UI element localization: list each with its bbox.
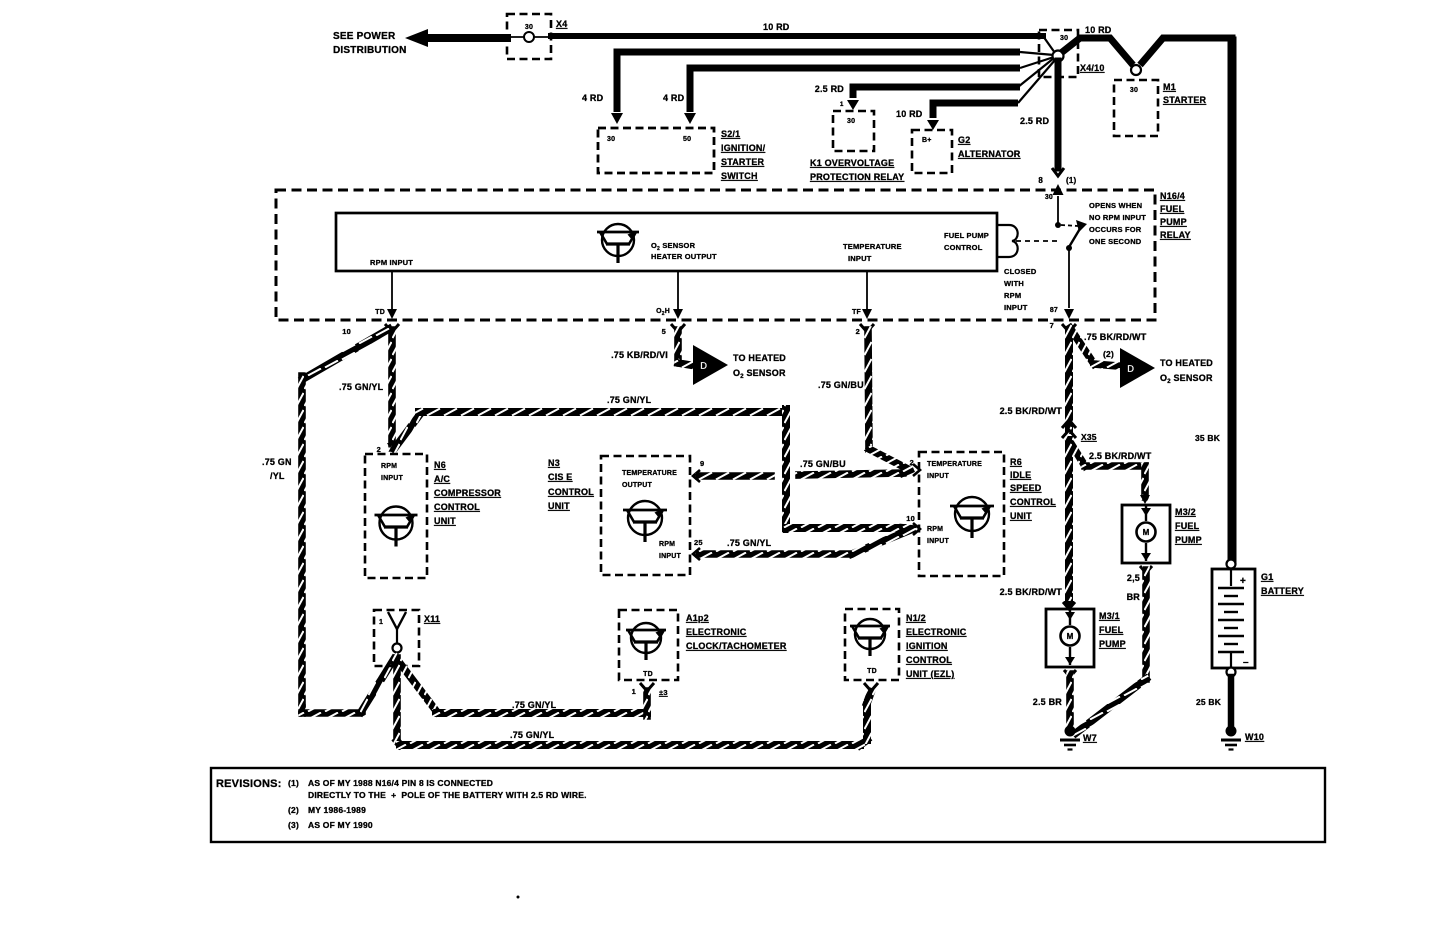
svg-text:.75 KB/RD/VI: .75 KB/RD/VI (611, 350, 668, 360)
svg-text:TEMPERATURE: TEMPERATURE (843, 242, 902, 251)
wire 2.5 RD junction to relay pin 8 (1055, 61, 1062, 168)
connector D to heated O2 sensor (left) (693, 345, 728, 385)
svg-text:D: D (700, 361, 707, 372)
svg-text:2.5 BK/RD/WT: 2.5 BK/RD/WT (1000, 587, 1063, 597)
svg-text:FUEL: FUEL (1175, 521, 1200, 531)
svg-text:±3: ±3 (659, 688, 668, 697)
wire .75 GN/BU N3 pin 9 to R6 pin 2 (699, 472, 771, 480)
svg-text:RPM INPUT: RPM INPUT (370, 258, 413, 267)
svg-text:2.5 BR: 2.5 BR (1033, 697, 1063, 707)
connector X4 (507, 14, 551, 59)
svg-text:UNIT: UNIT (1010, 511, 1032, 521)
svg-text:STARTER: STARTER (721, 157, 765, 167)
wire to power distribution with arrow (405, 29, 428, 47)
svg-text:TF: TF (852, 309, 861, 316)
wire 2.5 RD to K1 pin 30 (853, 87, 1020, 98)
svg-text:AS OF MY 1988 N16/4 PIN 8 IS C: AS OF MY 1988 N16/4 PIN 8 IS CONNECTED (308, 778, 493, 788)
ground W10 (1226, 726, 1237, 737)
wire .75 GN/YL X11 down to N1/2 run (393, 658, 401, 741)
svg-text:HEATER OUTPUT: HEATER OUTPUT (651, 252, 717, 261)
svg-text:RPM: RPM (659, 541, 675, 548)
svg-text:M3/1: M3/1 (1099, 611, 1120, 621)
svg-text:.75 GN: .75 GN (262, 457, 292, 467)
svg-text:IGNITION: IGNITION (906, 641, 948, 651)
svg-text:CONTROL: CONTROL (906, 655, 952, 665)
svg-text:COMPRESSOR: COMPRESSOR (434, 488, 501, 498)
svg-text:CONTROL: CONTROL (1010, 497, 1056, 507)
connector D to heated O2 sensor (right) (1120, 348, 1155, 388)
svg-text:30: 30 (847, 118, 855, 125)
svg-text:PUMP: PUMP (1099, 639, 1126, 649)
svg-text:W10: W10 (1245, 732, 1264, 742)
fuel pump M3/2 (1122, 505, 1170, 563)
switch S2/1 ignition/starter switch (598, 128, 714, 173)
svg-text:N1/2: N1/2 (906, 613, 926, 623)
relay internal module box (336, 213, 997, 271)
scan speck (517, 896, 520, 899)
svg-text:TEMPERATURE: TEMPERATURE (622, 470, 677, 477)
svg-text:25 BK: 25 BK (1196, 697, 1222, 707)
relay pin TF (866, 271, 868, 310)
svg-text:2: 2 (856, 327, 860, 336)
svg-text:RPM: RPM (381, 463, 397, 470)
wire .75 GN/YL TD pin down to N6 pin 2 (385, 324, 399, 332)
svg-text:FUEL: FUEL (1160, 204, 1185, 214)
svg-text:5: 5 (662, 327, 666, 336)
svg-text:CONTROL: CONTROL (944, 243, 983, 252)
clock/tachometer A1p2 (619, 610, 678, 680)
svg-text:2: 2 (377, 445, 381, 454)
svg-text:SEE POWER: SEE POWER (333, 31, 396, 42)
svg-text:CONTROL: CONTROL (548, 487, 594, 497)
wire into M3/1 (1063, 602, 1075, 609)
revisions note box (211, 768, 1325, 842)
wire .75 GN/YL N6 pin2 branch up to distribution run (394, 413, 421, 449)
svg-text:PROTECTION RELAY: PROTECTION RELAY (810, 172, 904, 182)
svg-text:OPENS WHEN: OPENS WHEN (1089, 201, 1142, 210)
svg-text:INPUT: INPUT (848, 254, 872, 263)
wire .75 GN/BU TF pin to R6 pin 2 (860, 324, 874, 332)
svg-text:CIS E: CIS E (548, 472, 573, 482)
svg-text:FUEL PUMP: FUEL PUMP (944, 231, 989, 240)
svg-text:DISTRIBUTION: DISTRIBUTION (333, 45, 407, 56)
svg-text:FUEL: FUEL (1099, 625, 1124, 635)
svg-text:2.5 BK/RD/WT: 2.5 BK/RD/WT (1000, 406, 1063, 416)
svg-text:.75 GN/YL: .75 GN/YL (512, 700, 557, 710)
svg-text:M1: M1 (1163, 82, 1176, 92)
svg-text:BR: BR (1127, 592, 1141, 602)
svg-text:REVISIONS:: REVISIONS: (216, 778, 282, 790)
svg-text:SWITCH: SWITCH (721, 171, 758, 181)
svg-text:(3): (3) (288, 820, 299, 830)
svg-text:RELAY: RELAY (1160, 230, 1191, 240)
svg-text:S2/1: S2/1 (721, 129, 740, 139)
svg-text:UNIT: UNIT (434, 516, 456, 526)
svg-text:K1 OVERVOLTAGE: K1 OVERVOLTAGE (810, 158, 894, 168)
svg-text:SPEED: SPEED (1010, 483, 1042, 493)
connector X4/10 junction (1039, 30, 1078, 77)
svg-text:87: 87 (1050, 307, 1058, 314)
svg-text:X4/10: X4/10 (1080, 63, 1105, 73)
svg-text:10 RD: 10 RD (1085, 25, 1112, 35)
wire .75 KB/RD/VI pin 5 to heated O2 sensor (671, 324, 685, 332)
ignition control unit N1/2 (EZL) (845, 609, 899, 680)
svg-text:10 RD: 10 RD (763, 22, 790, 32)
junction fan wires (1043, 36, 1055, 53)
svg-text:CLOCK/TACHOMETER: CLOCK/TACHOMETER (686, 641, 787, 651)
svg-text:ELECTRONIC: ELECTRONIC (906, 627, 967, 637)
svg-text:B+: B+ (922, 137, 932, 144)
svg-text:X35: X35 (1081, 432, 1097, 442)
svg-text:INPUT: INPUT (659, 553, 682, 560)
relay N16/4 fuel pump relay outline (276, 190, 1155, 320)
svg-text:WITH: WITH (1004, 279, 1024, 288)
svg-text:30: 30 (525, 24, 533, 31)
svg-text:OUTPUT: OUTPUT (622, 482, 653, 489)
svg-text:X11: X11 (424, 614, 440, 624)
wire vertical x785 down (782, 409, 790, 529)
wire 10 RD from X4 to X4/10 junction (551, 33, 1043, 39)
wire 2.5 BK/RD/WT pin 87 down to fuel pumps (1065, 330, 1073, 430)
svg-text:9: 9 (700, 459, 704, 468)
wire 10 RD junction to starter and battery (1061, 38, 1133, 65)
svg-text:INPUT: INPUT (381, 475, 404, 482)
battery G1 (1227, 560, 1236, 569)
connector X11 (374, 610, 419, 666)
wire .75 BK/RD/WT pin 7 branch to heated O2 sensor (1062, 324, 1076, 332)
wire 4 RD to S2/1 pin 30 (617, 52, 1020, 112)
svg-text:2.5 RD: 2.5 RD (1020, 116, 1050, 126)
svg-text:35 BK: 35 BK (1195, 433, 1221, 443)
svg-text:TD: TD (643, 671, 653, 678)
wire .75 GN/YL horizontal run to x785 (419, 408, 786, 416)
wire 2.5 BR M3/2 to ground (1140, 566, 1152, 573)
wire .75 GN/YL left vertical (298, 376, 306, 711)
svg-text:CLOSED: CLOSED (1004, 267, 1037, 276)
ground W7 (1065, 726, 1076, 737)
starter M1 (1114, 80, 1158, 136)
svg-text:2,5: 2,5 (1127, 573, 1140, 583)
svg-text:DIRECTLY TO THE + POLE OF TH: DIRECTLY TO THE + POLE OF THE BATTERY WI… (308, 790, 587, 800)
svg-text:(1): (1) (288, 778, 299, 788)
svg-text:N3: N3 (548, 458, 560, 468)
svg-text:M: M (1067, 632, 1074, 641)
svg-text:PUMP: PUMP (1160, 217, 1187, 227)
svg-text:BATTERY: BATTERY (1261, 586, 1304, 596)
svg-text:G1: G1 (1261, 572, 1273, 582)
svg-text:8: 8 (1038, 176, 1043, 185)
svg-text:CONTROL: CONTROL (434, 502, 480, 512)
svg-text:M3/2: M3/2 (1175, 507, 1196, 517)
svg-text:TD: TD (375, 309, 385, 316)
svg-text:INPUT: INPUT (927, 538, 950, 545)
svg-text:.75 GN/YL: .75 GN/YL (510, 730, 555, 740)
svg-text:ALTERNATOR: ALTERNATOR (958, 149, 1021, 159)
svg-text:X4: X4 (556, 19, 567, 29)
svg-text:N16/4: N16/4 (1160, 191, 1185, 201)
svg-text:1: 1 (840, 102, 844, 108)
svg-text:M: M (1143, 528, 1150, 537)
control unit N6 A/C compressor control unit (365, 454, 427, 578)
connector X35 (1062, 420, 1076, 428)
svg-text:30: 30 (1045, 194, 1053, 201)
wire horizontal to R6 pin 10 (786, 524, 903, 532)
svg-text:IGNITION/: IGNITION/ (721, 143, 766, 153)
svg-text:INPUT: INPUT (927, 473, 950, 480)
wire 10 RD to G2 B+ (933, 103, 1018, 118)
svg-text:G2: G2 (958, 135, 970, 145)
svg-text:IDLE: IDLE (1010, 470, 1031, 480)
svg-text:(2): (2) (288, 805, 299, 815)
svg-text:(2): (2) (1103, 349, 1114, 359)
svg-text:INPUT: INPUT (1004, 303, 1028, 312)
svg-text:UNIT: UNIT (548, 501, 570, 511)
svg-text:30: 30 (1060, 35, 1068, 42)
X11 junction fan (396, 652, 399, 660)
relay pin TD (391, 271, 393, 310)
svg-text:R6: R6 (1010, 457, 1022, 467)
svg-text:TEMPERATURE: TEMPERATURE (927, 461, 982, 468)
svg-text:A/C: A/C (434, 474, 450, 484)
svg-text:1: 1 (379, 619, 383, 626)
svg-text:AS OF MY 1990: AS OF MY 1990 (308, 820, 373, 830)
svg-text:TO HEATED: TO HEATED (1160, 358, 1213, 368)
svg-text:MY 1986-1989: MY 1986-1989 (308, 805, 366, 815)
svg-text:RPM: RPM (1004, 291, 1021, 300)
transistor O2 sensor heater driver (602, 224, 634, 256)
svg-text:4 RD: 4 RD (663, 93, 685, 103)
svg-text:.75 GN/YL: .75 GN/YL (727, 538, 772, 548)
svg-text:STARTER: STARTER (1163, 95, 1207, 105)
relay pin 87 (1064, 309, 1074, 319)
svg-text:4 RD: 4 RD (582, 93, 604, 103)
wire .75 GN/YL TD branch diagonal to left vertical (303, 329, 389, 379)
svg-text:.75 BK/RD/WT: .75 BK/RD/WT (1084, 332, 1147, 342)
svg-text:NO RPM INPUT: NO RPM INPUT (1089, 213, 1146, 222)
svg-text:30: 30 (1130, 87, 1138, 94)
svg-text:10: 10 (342, 327, 351, 336)
control unit R6 idle speed control unit (919, 452, 1004, 576)
svg-text:.75 GN/YL: .75 GN/YL (607, 395, 652, 405)
svg-text:+: + (1240, 576, 1246, 587)
wire 4 RD to S2/1 pin 50 (690, 68, 1020, 112)
svg-text:2.5 RD: 2.5 RD (815, 84, 845, 94)
svg-text:ONE SECOND: ONE SECOND (1089, 237, 1142, 246)
relay coil (997, 225, 1018, 257)
relay K1 overvoltage protection relay (833, 111, 874, 151)
alternator G2 (912, 130, 952, 173)
svg-text:(1): (1) (1066, 176, 1077, 185)
wire 25 BK battery to ground W10 (1228, 677, 1235, 729)
svg-text:N6: N6 (434, 460, 446, 470)
wire left vertical bottom to X11 (298, 708, 306, 713)
node M1 terminal (1131, 65, 1141, 75)
svg-text:PUMP: PUMP (1175, 535, 1202, 545)
svg-text:50: 50 (683, 136, 691, 143)
svg-text:D: D (1127, 364, 1134, 375)
svg-text:10: 10 (906, 514, 915, 523)
wire .75 GN/YL N3 pin 25 to R6 pin 10 (699, 550, 852, 558)
svg-text:ELECTRONIC: ELECTRONIC (686, 627, 747, 637)
wire 2.5 BK/RD/WT branch to M3/2 (1070, 442, 1085, 466)
svg-text:–: – (1243, 657, 1249, 668)
svg-text:25: 25 (694, 538, 703, 547)
svg-text:TO HEATED: TO HEATED (733, 353, 786, 363)
wire 2.5 BR M3/1 to ground W7 (1064, 670, 1076, 677)
svg-text:.75 GN/BU: .75 GN/BU (818, 380, 864, 390)
svg-text:W7: W7 (1083, 733, 1097, 743)
svg-text:.75 GN/YL: .75 GN/YL (339, 382, 384, 392)
svg-text:A1p2: A1p2 (686, 613, 709, 623)
svg-text:10 RD: 10 RD (896, 109, 923, 119)
wire .75 GN/YL X11 to A1p2 run (396, 658, 437, 712)
svg-text:RPM: RPM (927, 526, 943, 533)
svg-text:/YL: /YL (270, 471, 285, 481)
svg-text:OCCURS FOR: OCCURS FOR (1089, 225, 1142, 234)
svg-text:UNIT (EZL): UNIT (EZL) (906, 669, 955, 679)
svg-text:.75 GN/BU: .75 GN/BU (800, 459, 846, 469)
relay switch contact (1061, 225, 1078, 226)
svg-text:7: 7 (1050, 321, 1054, 330)
fuel pump M3/1 (1046, 609, 1094, 667)
svg-text:TD: TD (867, 668, 877, 675)
svg-text:2.5 BK/RD/WT: 2.5 BK/RD/WT (1089, 451, 1152, 461)
svg-text:30: 30 (607, 136, 615, 143)
svg-text:1: 1 (632, 687, 636, 696)
wire 35 BK right side down to battery (1228, 41, 1237, 560)
relay pin O2H (677, 271, 679, 310)
control unit N3 CIS E control unit (601, 456, 690, 575)
